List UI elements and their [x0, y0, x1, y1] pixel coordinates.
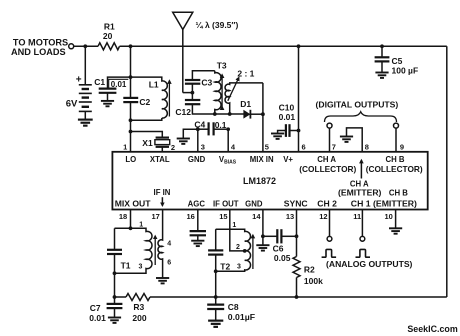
- svg-text:C5: C5: [392, 56, 403, 66]
- node: C5 rail junction: [380, 44, 384, 48]
- svg-text:12: 12: [319, 212, 327, 221]
- svg-text:C8: C8: [228, 302, 239, 312]
- brace: digital outputs: [325, 112, 397, 122]
- capacitor C1: [99, 77, 131, 101]
- svg-text:9: 9: [400, 143, 404, 152]
- svg-text:20: 20: [103, 31, 113, 41]
- node: CH2 analog terminal: [327, 236, 332, 241]
- ground: pin 10: [389, 228, 402, 233]
- svg-text:C7: C7: [90, 303, 101, 313]
- svg-text:X1: X1: [142, 138, 153, 148]
- svg-text:+: +: [76, 74, 82, 85]
- node: T1 bottom junction: [113, 271, 117, 275]
- node: digital output terminal A: [327, 123, 332, 128]
- svg-text:V+: V+: [283, 155, 293, 164]
- svg-text:0.01: 0.01: [279, 112, 296, 122]
- op-amp U1 LM1872 IC body: [112, 152, 427, 210]
- wire: R2 to bottom rail: [296, 278, 298, 298]
- capacitor C3: [185, 71, 215, 93]
- T1 tuning arrow: [154, 236, 156, 265]
- transformer T3 secondary: [225, 83, 263, 114]
- svg-text:100 µF: 100 µF: [392, 66, 419, 76]
- svg-text:LM1872: LM1872: [243, 176, 276, 186]
- svg-text:LO: LO: [125, 155, 136, 164]
- svg-text:IF OUT: IF OUT: [213, 199, 239, 208]
- svg-text:11: 11: [353, 212, 361, 221]
- node: C10 on V+ column: [297, 129, 301, 133]
- svg-text:7: 7: [332, 143, 336, 152]
- wire: bottom rail C8 to R2: [216, 296, 297, 298]
- resistor R2: [293, 257, 300, 278]
- svg-text:100k: 100k: [304, 276, 323, 286]
- wire: bottom rail right of R2: [297, 296, 447, 298]
- svg-text:TO MOTORS: TO MOTORS: [13, 37, 68, 47]
- svg-text:0.05: 0.05: [274, 253, 291, 263]
- svg-text:C1: C1: [94, 77, 105, 87]
- resistor R3: [126, 294, 150, 301]
- svg-text:15: 15: [219, 212, 227, 221]
- svg-text:MIX OUT: MIX OUT: [115, 198, 152, 208]
- IF IN arrow into pin 17: [161, 197, 163, 205]
- svg-text:XTAL: XTAL: [150, 155, 170, 164]
- wire: C2 to pin 1: [130, 102, 132, 152]
- svg-text:(COLLECTOR): (COLLECTOR): [366, 164, 423, 174]
- capacitor C6: [263, 229, 297, 243]
- svg-text:¼ λ (39.5″): ¼ λ (39.5″): [196, 20, 239, 30]
- node: T1 rail junction: [113, 295, 117, 299]
- capacitor C7: [107, 297, 123, 317]
- node: V+ rail junction: [297, 44, 301, 48]
- wire: pin 3 GND: [197, 129, 199, 152]
- svg-text:0.01: 0.01: [89, 313, 106, 323]
- ground: pin 14: [262, 236, 264, 245]
- node: pin 14 junction: [261, 234, 265, 238]
- svg-text:16: 16: [186, 212, 194, 221]
- svg-text:6: 6: [167, 259, 171, 266]
- IC internal arrow to pin 8: [360, 160, 362, 178]
- L1 tuning arrow: [168, 81, 170, 117]
- wire: to crystal X1: [131, 132, 163, 138]
- node: antenna tap C3/C12 junction: [191, 91, 195, 95]
- svg-text:C12: C12: [175, 107, 191, 117]
- svg-text:6V: 6V: [66, 99, 78, 110]
- svg-text:R2: R2: [304, 265, 315, 275]
- battery BT1 6V: [79, 46, 92, 119]
- node: MIX IN junction: [261, 112, 265, 116]
- svg-text:SeekIC.com: SeekIC.com: [407, 324, 457, 334]
- transformer T3 primary: [215, 71, 221, 114]
- svg-text:2 : 1: 2 : 1: [237, 68, 254, 78]
- ground: T1 secondary: [156, 278, 169, 283]
- svg-text:5: 5: [265, 143, 269, 152]
- T2 tuning arrow: [252, 235, 254, 269]
- wire: V+ pin 6 column: [298, 46, 300, 152]
- svg-text:SYNC: SYNC: [284, 198, 308, 208]
- svg-text:13: 13: [286, 212, 294, 221]
- resistor R1: [98, 43, 119, 50]
- svg-text:IF IN: IF IN: [154, 188, 171, 197]
- svg-text:1: 1: [123, 143, 127, 152]
- ground: battery: [78, 120, 93, 126]
- node: T2 rail junction: [214, 295, 218, 299]
- svg-text:CH B: CH B: [389, 188, 408, 197]
- svg-text:17: 17: [151, 212, 159, 221]
- node: digital output terminal B: [394, 123, 399, 128]
- svg-text:C3: C3: [201, 78, 212, 88]
- pulse icon CH2: [322, 249, 337, 257]
- wire: pin 8 to ground: [347, 128, 363, 152]
- wire: pin 15 IF OUT to T2 tap: [230, 210, 245, 251]
- capacitor C2: [123, 98, 138, 102]
- ground: C8: [208, 321, 223, 327]
- wire: pin 4: [227, 129, 229, 152]
- transformer T1 primary: [115, 228, 152, 273]
- svg-text:6: 6: [302, 143, 306, 152]
- inductor L1: [131, 77, 168, 118]
- wire: bottom rail R3 to C8: [150, 296, 216, 298]
- svg-text:3: 3: [139, 264, 143, 271]
- diode D1: [243, 110, 263, 119]
- node: tank bottom junction: [129, 118, 133, 122]
- svg-text:CH A: CH A: [317, 155, 336, 164]
- wire: tank bottom L1 to pin1 column: [131, 118, 162, 120]
- wire: terminal to R1: [74, 45, 98, 47]
- svg-text:D1: D1: [240, 99, 251, 109]
- node: T3 primary bottom: [213, 112, 217, 116]
- svg-text:3: 3: [201, 143, 205, 152]
- capacitor: T1 tank cap: [107, 228, 122, 297]
- pulse icon CH1: [356, 249, 371, 257]
- wire: pin 11 CH1 output: [361, 210, 363, 237]
- ground: C5: [375, 73, 388, 78]
- capacitor: AGC bypass: [190, 231, 206, 240]
- capacitor: T2 tank cap: [208, 229, 223, 297]
- capacitor C12: [185, 93, 244, 114]
- svg-text:AGC: AGC: [188, 199, 206, 208]
- wire: pin 10 to ground: [395, 210, 397, 229]
- wire: +V right rail: [446, 46, 448, 297]
- capacitor C5: [375, 46, 390, 72]
- svg-text:10: 10: [384, 212, 392, 221]
- IC pin labels bottom row: [115, 198, 337, 208]
- wire: pin 14 GND: [262, 210, 264, 237]
- pin numbers top: [123, 143, 404, 152]
- svg-text:0.01µF: 0.01µF: [228, 312, 255, 322]
- wire: pin 1 column (rail to C2): [130, 46, 132, 97]
- svg-text:1: 1: [139, 222, 143, 229]
- node: battery tap junction: [83, 44, 87, 48]
- svg-text:18: 18: [119, 212, 127, 221]
- node: rail junction at pin1 column: [129, 44, 133, 48]
- svg-text:R1: R1: [104, 21, 115, 31]
- svg-text:AND LOADS: AND LOADS: [11, 47, 66, 57]
- transformer T1 secondary: [158, 210, 163, 278]
- wire: +V top rail: [120, 45, 447, 47]
- capacitor C10: [278, 124, 299, 137]
- svg-text:GND: GND: [245, 199, 263, 208]
- svg-text:0.01: 0.01: [111, 80, 127, 89]
- IC pin labels top row: [125, 155, 423, 198]
- pin numbers bottom: [119, 212, 393, 221]
- svg-text:CH B: CH B: [385, 155, 404, 164]
- wire: bottom rail T1 leg to R3: [115, 296, 127, 298]
- svg-text:2: 2: [236, 244, 240, 251]
- ground: pin 3: [183, 129, 198, 138]
- svg-text:T1: T1: [121, 261, 131, 271]
- node: CH1 analog terminal: [360, 236, 365, 241]
- svg-text:R3: R3: [133, 302, 144, 312]
- svg-text:GND: GND: [188, 155, 206, 164]
- svg-text:CH 1 (EMITTER): CH 1 (EMITTER): [351, 198, 417, 208]
- wire: pin 13 SYNC: [296, 210, 298, 257]
- svg-text:(ANALOG OUTPUTS): (ANALOG OUTPUTS): [326, 259, 413, 269]
- svg-text:1: 1: [232, 222, 236, 229]
- node: pin 4 corner: [226, 127, 230, 131]
- node: T2 tap junction: [243, 249, 247, 253]
- node: R2 rail junction: [295, 295, 299, 299]
- ground: C1: [101, 101, 114, 106]
- antenna: [173, 12, 193, 92]
- ground: pin 8: [340, 137, 353, 142]
- node: TO MOTORS AND LOADS terminal: [69, 44, 74, 49]
- wire: terminal to pin 7: [329, 128, 331, 152]
- ground: C7: [108, 318, 121, 323]
- svg-text:0.1: 0.1: [215, 120, 227, 130]
- node: pin 18 tank junction: [129, 226, 133, 230]
- svg-text:(EMITTER): (EMITTER): [338, 187, 382, 197]
- transformer T2 winding: [216, 229, 251, 271]
- node: crystal branch junction: [129, 130, 133, 134]
- wire: pin 18 to T1 tank: [130, 210, 132, 229]
- node: T2 bottom junction: [214, 269, 218, 273]
- svg-text:L1: L1: [149, 80, 159, 90]
- svg-text:8: 8: [365, 143, 369, 152]
- svg-text:14: 14: [252, 212, 261, 221]
- node: C1 junction on pin1 column: [129, 75, 133, 79]
- svg-text:MIX IN: MIX IN: [250, 155, 274, 164]
- node: T3 secondary bottom: [228, 112, 232, 116]
- svg-text:4: 4: [167, 241, 171, 248]
- T3 tuning arrow (double): [221, 75, 223, 107]
- svg-text:200: 200: [132, 313, 146, 323]
- svg-text:T2: T2: [220, 261, 230, 271]
- capacitor C8: [207, 297, 224, 320]
- T3 ratio arrow 2:1: [228, 78, 239, 101]
- wire: to pin 5 MIX IN: [262, 83, 264, 152]
- crystal X1: [155, 138, 170, 152]
- node: C6/SYNC junction: [295, 234, 299, 238]
- capacitor C4: [198, 122, 228, 135]
- svg-text:3: 3: [237, 263, 241, 270]
- node: pin3/C4 junction: [196, 127, 200, 131]
- svg-text:T3: T3: [217, 60, 227, 70]
- svg-text:C4: C4: [194, 119, 205, 129]
- svg-text:C2: C2: [139, 97, 150, 107]
- svg-text:(COLLECTOR): (COLLECTOR): [299, 164, 356, 174]
- wire: pin 12 CH2 output: [329, 210, 331, 237]
- wire: terminal to pin 9: [395, 128, 397, 152]
- ground: C10: [271, 134, 284, 139]
- svg-text:(DIGITAL OUTPUTS): (DIGITAL OUTPUTS): [316, 100, 399, 110]
- wire: pin 16 AGC: [197, 210, 199, 231]
- svg-text:2: 2: [171, 143, 175, 152]
- svg-text:CH 2: CH 2: [317, 198, 337, 208]
- ground: AGC cap: [191, 241, 204, 246]
